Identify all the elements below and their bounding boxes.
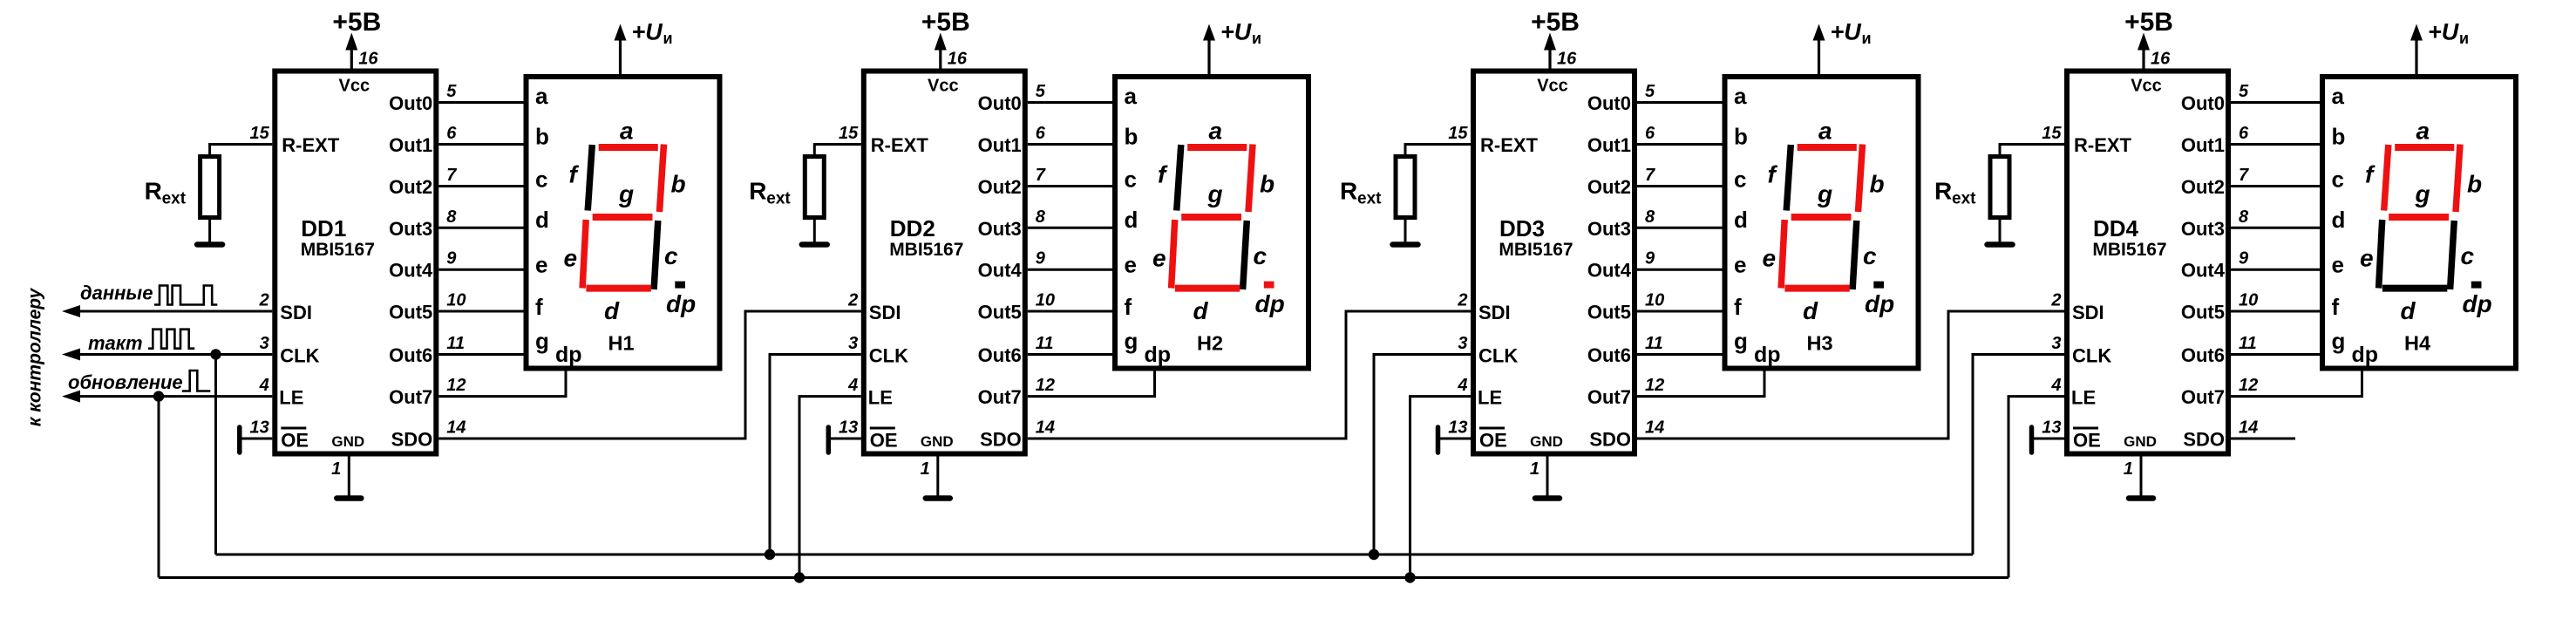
svg-text:2: 2 [847,291,858,310]
ground bar under Rext DD4 [1988,241,2013,248]
svg-text:b: b [535,124,549,150]
svg-text:2: 2 [259,291,269,310]
pin 10 Out5 DD2 [978,291,1055,323]
svg-text:b: b [1260,171,1274,198]
OE stub terminal DD4 [2029,427,2035,452]
svg-text:d: d [1193,297,1209,324]
svg-text:Vcc: Vcc [339,77,370,96]
wire DD4.Out1 to display [2231,143,2320,146]
Rext label [1340,178,1382,208]
svg-text:+5В: +5В [2124,8,2173,37]
junction CLK drop DD1 [210,349,221,359]
svg-text:OE: OE [870,430,898,452]
svg-text:16: 16 [1557,50,1577,69]
svg-text:Out0: Out0 [389,92,432,114]
svg-text:6: 6 [1036,124,1046,143]
svg-text:dp: dp [1754,343,1781,367]
svg-text:dp: dp [1255,290,1285,317]
svg-text:+5В: +5В [921,8,970,37]
wire Rext to ground [1404,220,1407,243]
svg-text:14: 14 [1036,418,1055,438]
wire DD3.Out5 to display [1637,310,1723,313]
svg-text:b: b [2467,171,2482,198]
wire LE DD4 to bus [2008,397,2064,578]
svg-text:Out4: Out4 [2181,260,2226,282]
svg-text:Out3: Out3 [389,218,432,240]
svg-text:15: 15 [1448,124,1468,143]
wire DD3.Out7 to display dp [1637,369,1764,397]
segment e H4 [2379,220,2382,289]
wire GND pin [936,457,939,496]
svg-text:e: e [2360,245,2374,272]
svg-text:Vcc: Vcc [2131,77,2162,96]
svg-text:данные: данные [80,282,153,304]
segment c H1 [654,221,658,289]
svg-text:12: 12 [446,376,466,395]
svg-text:g: g [1817,180,1832,207]
pin 4 LE DD2 [847,376,893,409]
Rext label [749,178,791,208]
display H2 pin letters [1125,83,1172,367]
pin 12 Out7 DD3 [1587,376,1664,408]
ground bar under Rext DD2 [802,241,827,248]
wire Rext to ground [813,220,816,243]
svg-text:c: c [535,167,547,193]
wire SDI DD1 from controller [62,305,272,317]
segment g H1 [593,214,653,221]
svg-text:CLK: CLK [869,345,908,367]
junction LE bus DD2 [794,572,805,582]
svg-text:Out3: Out3 [2181,218,2225,240]
svg-text:12: 12 [1036,376,1055,395]
pin 15 R-EXT DD4 [2042,124,2131,156]
wire CLK DD1 from controller [62,349,272,361]
svg-text:13: 13 [839,418,858,438]
svg-text:GND: GND [1530,433,1563,450]
svg-text:Out7: Out7 [389,386,432,408]
svg-text:8: 8 [2239,207,2249,227]
svg-text:15: 15 [250,124,270,143]
svg-text:Vcc: Vcc [1537,77,1568,96]
OE stub terminal DD3 [1436,427,1441,452]
svg-text:16: 16 [358,50,378,69]
svg-text:4: 4 [259,376,269,395]
svg-text:SDO: SDO [391,429,433,451]
svg-text:Out0: Out0 [2181,92,2225,114]
wire CLK DD2 to bus [770,355,861,555]
segment g H2 [1181,214,1241,221]
svg-text:Out5: Out5 [389,302,432,323]
svg-text:6: 6 [1645,124,1655,143]
svg-text:MBI5167: MBI5167 [889,240,963,260]
svg-text:Out6: Out6 [1587,344,1631,366]
svg-text:a: a [2332,83,2345,109]
segment e H1 [582,220,586,289]
wire DD3.Out3 to display [1637,227,1723,229]
svg-text:15: 15 [839,124,859,143]
+U supply for H3 [1813,19,1872,75]
pin 3 CLK DD4 [2051,334,2111,367]
wire Rext to ground [208,220,211,243]
pin 11 Out6 DD4 [2181,334,2257,366]
svg-text:g: g [1734,328,1748,354]
svg-text:2: 2 [2050,291,2061,310]
wire DD2.Out6 to display [1028,353,1112,356]
svg-text:d: d [2401,297,2416,324]
svg-text:7: 7 [1645,166,1655,185]
svg-text:g: g [2332,328,2346,354]
svg-text:Out1: Out1 [2181,134,2225,156]
svg-text:a: a [1818,118,1832,145]
svg-text:16: 16 [2151,50,2171,69]
OE stub terminal DD2 [826,427,832,452]
svg-text:g: g [535,328,549,354]
waveform update [182,371,211,391]
svg-text:d: d [535,207,549,233]
+5V supply for DD2 [921,8,970,69]
wire OE stub [2032,438,2065,440]
pin 9 Out4 DD1 [389,249,457,282]
wire Rext to ground [1999,220,2002,243]
pin 12 Out7 DD1 [389,376,466,408]
svg-text:8: 8 [1036,207,1046,227]
pin 5 Out0 DD3 [1587,82,1655,114]
svg-text:14: 14 [2239,418,2258,438]
svg-text:d: d [1734,207,1748,233]
svg-text:GND: GND [921,433,954,450]
pin 6 Out1 DD1 [389,124,457,156]
svg-text:dp: dp [1145,343,1172,367]
svg-text:ext: ext [1357,190,1382,208]
svg-text:+U: +U [1220,19,1253,45]
svg-text:dp: dp [666,290,696,317]
svg-text:ext: ext [162,190,187,208]
segment a H2 [1187,144,1247,151]
wire DD1.Out7 to display dp [438,369,566,397]
svg-text:11: 11 [1036,334,1054,353]
svg-text:b: b [671,171,686,198]
pin 10 Out5 DD1 [389,291,466,323]
svg-text:e: e [564,245,578,272]
segment dp H1 [675,282,685,289]
svg-text:b: b [1125,124,1138,150]
svg-text:c: c [1254,242,1268,269]
wire DD3.Out6 to display [1637,353,1723,356]
svg-text:LE: LE [279,387,303,409]
svg-text:+5В: +5В [1531,8,1580,37]
pin 6 Out1 DD3 [1587,124,1655,156]
svg-text:LE: LE [1478,387,1502,409]
svg-text:13: 13 [250,418,269,438]
+U supply for H1 [615,19,673,75]
wire DD2.Out4 to display [1028,269,1112,271]
pin 13 OE DD3 [1448,418,1507,452]
svg-text:GND: GND [2124,433,2157,450]
pin 4 LE DD4 [2050,376,2096,409]
segment c H4 [2450,221,2455,289]
svg-text:Out3: Out3 [978,218,1022,240]
svg-text:Out7: Out7 [978,386,1022,408]
display H1 body [527,77,720,369]
svg-text:7: 7 [446,166,457,185]
svg-text:Out5: Out5 [1587,302,1631,323]
pin 8 Out3 DD2 [978,207,1046,240]
wire DD1.Out5 to display [438,310,523,313]
svg-text:Out7: Out7 [2181,386,2225,408]
segment c H3 [1852,221,1857,289]
svg-text:c: c [2332,167,2344,193]
segment labels H3 [1763,118,1895,325]
svg-text:g: g [618,180,634,207]
pin 15 R-EXT DD3 [1448,124,1538,156]
display H1 pin letters [535,83,582,367]
svg-text:H3: H3 [1806,332,1832,355]
svg-text:d: d [1125,207,1138,233]
pin 15 R-EXT DD1 [250,124,340,156]
svg-text:e: e [1152,245,1166,272]
pin 3 CLK DD2 [848,334,908,367]
wire DD4.Out4 to display [2231,269,2320,271]
svg-text:R-EXT: R-EXT [282,134,340,156]
wire DD4.Out7 to display dp [2231,369,2362,397]
svg-text:e: e [1125,252,1137,278]
segment b H4 [2456,145,2460,213]
wire R-EXT to Rext [210,145,273,155]
svg-text:4: 4 [847,376,858,395]
pin 15 R-EXT DD2 [839,124,928,156]
segment labels H4 [2360,118,2492,325]
pin 11 Out6 DD1 [389,334,465,366]
+5V supply for DD1 [332,8,381,69]
pin 10 Out5 DD3 [1587,291,1664,323]
pin 16 Vcc label DD1 [339,50,379,96]
svg-text:SDO: SDO [980,429,1022,451]
svg-text:SDO: SDO [2183,429,2225,451]
svg-text:c: c [664,242,678,269]
svg-text:6: 6 [446,124,457,143]
display H4 body [2322,77,2516,369]
svg-text:+5В: +5В [332,8,381,37]
svg-text:a: a [1734,83,1747,109]
wire DD3.SDO daisy chain [1637,311,2064,439]
svg-text:LE: LE [868,387,893,409]
wire R-EXT to Rext [1405,145,1471,155]
segment dp H2 [1264,282,1274,289]
svg-text:и: и [1252,30,1261,47]
svg-text:9: 9 [2239,249,2249,269]
svg-text:H2: H2 [1197,332,1223,355]
pin 1 GND DD2 [921,433,954,479]
svg-text:R: R [145,178,162,205]
svg-text:dp: dp [2463,290,2492,317]
resistor Rext (DD4) [1990,157,2009,218]
svg-text:1: 1 [2124,459,2133,479]
svg-text:DD4: DD4 [2093,215,2139,241]
wire DD3.Out4 to display [1637,269,1723,271]
pin 13 OE DD2 [839,418,898,452]
svg-text:3: 3 [2051,334,2061,353]
svg-text:dp: dp [2352,343,2379,367]
svg-text:R-EXT: R-EXT [1480,134,1539,156]
segment f H1 [588,145,592,211]
wire DD4.Out6 to display [2231,353,2320,356]
wire CLK drop to bus [214,355,217,555]
svg-text:a: a [1125,83,1138,109]
pin 8 Out3 DD4 [2181,207,2249,240]
svg-text:Out4: Out4 [1587,260,1632,282]
svg-text:11: 11 [446,334,465,353]
segment d H3 [1784,285,1849,292]
pin 7 Out2 DD2 [978,166,1046,198]
segment f H2 [1177,145,1181,211]
ground symbol DD1 [336,495,361,501]
wire R-EXT to Rext [2000,145,2064,155]
svg-text:Out0: Out0 [978,92,1022,114]
wire DD1.Out1 to display [438,143,523,146]
svg-text:R: R [1934,178,1952,205]
svg-text:MBI5167: MBI5167 [2092,240,2166,260]
wire DD4.Out2 to display [2231,185,2320,187]
svg-text:H1: H1 [608,332,634,355]
wire DD2.Out5 to display [1028,310,1112,313]
svg-text:+U: +U [1831,19,1863,45]
svg-text:ext: ext [1952,190,1976,208]
pin 8 Out3 DD3 [1587,207,1655,240]
svg-text:ext: ext [766,190,791,208]
CLK bus wire [216,554,1974,556]
svg-text:7: 7 [1036,166,1046,185]
segment g H3 [1791,214,1852,221]
svg-text:b: b [1870,171,1885,198]
svg-text:8: 8 [446,207,457,227]
segment f H3 [1786,145,1791,211]
svg-text:Out2: Out2 [2181,176,2225,198]
svg-text:13: 13 [1448,418,1467,438]
svg-text:1: 1 [1530,459,1539,479]
svg-text:c: c [1863,242,1877,269]
svg-text:5: 5 [1036,82,1046,101]
svg-text:DD3: DD3 [1499,215,1545,241]
display H2 body [1115,77,1308,369]
pin 4 LE DD3 [1457,376,1502,409]
wire DD1.Out4 to display [438,269,523,271]
segment b H2 [1248,145,1253,213]
+5V supply for DD3 [1531,8,1580,69]
svg-text:OE: OE [281,430,309,452]
wire DD2.Out7 to display dp [1028,369,1155,397]
svg-text:R-EXT: R-EXT [2074,134,2132,156]
segment labels H1 [564,118,697,325]
svg-text:12: 12 [1645,376,1664,395]
svg-text:c: c [1734,167,1746,193]
svg-text:Out0: Out0 [1587,92,1631,114]
svg-text:2: 2 [1457,291,1467,310]
waveform data [154,286,217,305]
svg-text:к контроллеру: к контроллеру [25,287,45,426]
svg-text:и: и [663,30,673,47]
svg-text:и: и [2459,30,2469,47]
wire OE stub [828,438,861,440]
segment labels H2 [1152,118,1285,325]
svg-text:Vcc: Vcc [928,77,959,96]
svg-text:SDI: SDI [869,302,901,323]
pin 7 Out2 DD3 [1587,166,1655,198]
wire DD4.Out3 to display [2231,227,2320,229]
svg-text:OE: OE [2073,430,2101,452]
segment f H4 [2384,145,2389,211]
svg-text:10: 10 [446,291,466,310]
wire CLK DD4 to bus [1973,355,2064,555]
pin 12 Out7 DD4 [2181,376,2258,408]
ground bar under Rext DD3 [1393,241,1418,248]
segment e H3 [1781,220,1784,289]
pin 2 SDI DD4 [2050,291,2104,324]
svg-text:+U: +U [632,19,664,45]
wire CLK DD3 to bus [1374,355,1471,555]
wire DD4.Out5 to display [2231,310,2320,313]
pin 11 Out6 DD2 [978,334,1054,366]
svg-text:CLK: CLK [1478,345,1518,367]
svg-text:f: f [2332,294,2340,320]
pin 9 Out4 DD4 [2181,249,2249,282]
svg-text:c: c [1125,167,1137,193]
pin 14 SDO DD1 [391,418,466,451]
pin 11 Out6 DD3 [1587,334,1663,366]
segment a H1 [599,144,658,151]
wire DD3.Out0 to display [1637,101,1723,104]
ground symbol DD2 [926,495,950,501]
resistor Rext (DD2) [805,157,824,218]
display H3 body [1725,77,1919,369]
pin 16 Vcc label DD2 [928,50,968,96]
wire DD1.Out6 to display [438,353,523,356]
pin 9 Out4 DD2 [978,249,1046,282]
svg-text:9: 9 [446,249,457,269]
waveform clock [148,330,194,349]
svg-text:SDI: SDI [280,302,312,323]
wire OE stub [1438,438,1472,440]
pin 4 LE DD1 [259,376,304,409]
pin 7 Out2 DD1 [389,166,457,198]
pin 6 Out1 DD2 [978,124,1046,156]
svg-text:12: 12 [2239,376,2258,395]
svg-text:H4: H4 [2404,332,2430,355]
wire DD4.SDO daisy chain [2231,438,2295,440]
svg-text:CLK: CLK [2072,345,2111,367]
svg-text:9: 9 [1036,249,1046,269]
segment c H2 [1243,221,1247,289]
wire DD2.Out3 to display [1028,227,1112,229]
pin 14 SDO DD2 [980,418,1055,451]
segment e H2 [1172,220,1175,289]
wire LE DD2 to bus [799,397,861,578]
pin 14 SDO DD4 [2183,418,2258,451]
svg-text:Out7: Out7 [1587,386,1631,408]
svg-text:OE: OE [1479,430,1507,452]
svg-text:+U: +U [2428,19,2460,45]
IC DD3 MBI5167 body [1473,71,1635,454]
pin 1 GND DD4 [2124,433,2157,479]
svg-text:1: 1 [331,459,341,479]
svg-text:e: e [535,252,547,278]
IC DD2 MBI5167 body [864,71,1025,454]
svg-text:MBI5167: MBI5167 [301,240,375,260]
svg-text:e: e [1734,252,1746,278]
svg-text:g: g [1125,328,1138,354]
svg-text:1: 1 [921,459,930,479]
svg-text:Out6: Out6 [978,344,1022,366]
svg-text:10: 10 [1036,291,1055,310]
